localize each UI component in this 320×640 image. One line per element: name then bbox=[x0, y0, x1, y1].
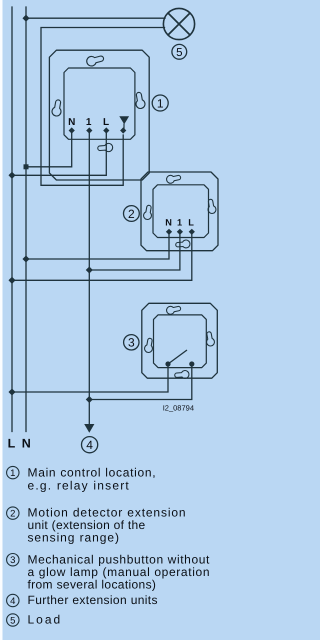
node junction L rail / S3 bbox=[8, 388, 15, 395]
svg-text:L: L bbox=[8, 436, 16, 450]
svg-text:e.g. relay insert: e.g. relay insert bbox=[28, 479, 130, 493]
U1 terminal dot L bbox=[103, 127, 109, 133]
S3 insert (inner box) bbox=[154, 315, 207, 368]
svg-text:N: N bbox=[68, 117, 75, 128]
wire lamp return: down left side, across, up to triangle terminal bbox=[41, 28, 165, 186]
U1 terminal dot 1 bbox=[86, 127, 92, 133]
svg-text:L: L bbox=[188, 218, 194, 228]
callout 1 bbox=[152, 95, 168, 111]
callout 4 bbox=[82, 437, 98, 453]
svg-text:3: 3 bbox=[10, 555, 15, 566]
node junction on N rail at lamp feed bbox=[22, 15, 29, 22]
legend item 2 bbox=[7, 506, 187, 545]
left white margin strip bbox=[0, 0, 3, 640]
legend item 5 bbox=[7, 613, 63, 627]
pushbutton S3 outer flush-box bbox=[142, 303, 218, 378]
lamp E load (5) bbox=[163, 8, 194, 39]
wire L rail vertical bbox=[11, 7, 13, 432]
wire pushbutton S3 right contact to 1-wire bbox=[89, 364, 192, 400]
U1 terminal dot N bbox=[69, 127, 75, 133]
callout 3 bbox=[124, 335, 139, 350]
svg-text:1: 1 bbox=[10, 468, 15, 479]
U2 terminal dot N bbox=[166, 229, 172, 235]
wire L terminal of U1 to L rail bbox=[12, 133, 106, 175]
svg-text:2: 2 bbox=[128, 207, 135, 221]
svg-text:Main control location,: Main control location, bbox=[28, 466, 157, 480]
svg-text:2: 2 bbox=[10, 509, 15, 520]
svg-text:from several locations): from several locations) bbox=[28, 578, 157, 592]
wire N rail vertical bbox=[25, 7, 27, 432]
node junction L rail / U2 L bbox=[8, 277, 15, 284]
wire L rail to U2 L terminal bbox=[12, 234, 192, 280]
wire L rail to pushbutton S3 left contact bbox=[12, 364, 168, 392]
svg-text:N: N bbox=[165, 218, 172, 228]
wire N rail to lamp (top feed) bbox=[26, 17, 165, 19]
U2 insert (inner box) bbox=[153, 185, 209, 238]
S3 switch contact left bbox=[165, 361, 170, 366]
U2 screw slot left bbox=[143, 205, 153, 220]
svg-text:Further extension units: Further extension units bbox=[28, 593, 158, 607]
svg-text:4: 4 bbox=[86, 438, 93, 452]
arrow to further extension units bbox=[84, 424, 94, 433]
svg-text:1: 1 bbox=[86, 117, 92, 128]
svg-text:1: 1 bbox=[157, 96, 164, 110]
wire N rail to U2 N terminal bbox=[26, 234, 169, 259]
control unit U1 insert (inner box) bbox=[64, 68, 135, 139]
U1 cable clamp bottom bbox=[97, 143, 113, 153]
svg-text:L: L bbox=[103, 117, 109, 128]
U1 screw slot left bbox=[51, 99, 63, 117]
S3 switch contact right bbox=[189, 361, 194, 366]
U1 output triangle symbol bbox=[119, 116, 129, 124]
node junction N rail / U1 N bbox=[24, 164, 29, 169]
svg-text:I2_08794: I2_08794 bbox=[163, 404, 194, 413]
legend item 1 bbox=[7, 466, 157, 493]
node junction 1-wire / S3 bbox=[86, 396, 93, 403]
S3 cable clamp bottom bbox=[174, 370, 189, 379]
callout 5 bbox=[172, 44, 187, 59]
node junction 1-wire / U2 1 bbox=[86, 266, 93, 273]
U1 screw slot right bbox=[134, 92, 146, 110]
S3 screw slot top bbox=[166, 304, 182, 315]
callout 2 bbox=[123, 206, 139, 222]
U1 screw slot top bbox=[86, 53, 105, 67]
svg-text:1: 1 bbox=[177, 218, 182, 228]
U2 terminal dot L bbox=[189, 229, 195, 235]
wire 1-wire to U2 terminal 1 bbox=[89, 234, 180, 270]
svg-text:5: 5 bbox=[176, 47, 182, 59]
S3 switch lever bbox=[168, 350, 187, 364]
control unit U1 outer flush-box bbox=[49, 50, 149, 180]
svg-text:3: 3 bbox=[128, 336, 135, 350]
wire 1-wire bus (control wire) from terminal 1 down to arrow bbox=[88, 133, 90, 424]
extension unit U2 outer flush-box bbox=[141, 172, 218, 251]
U2 screw slot right bbox=[206, 199, 216, 214]
node junction L rail / U1 L bbox=[8, 172, 15, 179]
svg-text:5: 5 bbox=[10, 616, 15, 627]
svg-text:Load: Load bbox=[28, 613, 63, 627]
U2 cable clamp bottom bbox=[175, 240, 190, 249]
S3 screw slot right bbox=[205, 331, 215, 346]
U1 terminal dot output bbox=[120, 127, 126, 133]
S3 screw slot left bbox=[144, 338, 154, 353]
svg-text:sensing range): sensing range) bbox=[28, 531, 120, 545]
U2 screw slot top bbox=[166, 173, 182, 184]
svg-text:4: 4 bbox=[10, 596, 15, 607]
U2 terminal dot 1 bbox=[177, 229, 183, 235]
wire N terminal of U1 to N rail bbox=[26, 133, 72, 167]
node junction N rail / U2 N bbox=[22, 255, 29, 262]
legend item 4 bbox=[7, 593, 158, 607]
legend item 3 bbox=[7, 553, 211, 592]
svg-text:N: N bbox=[22, 436, 31, 450]
